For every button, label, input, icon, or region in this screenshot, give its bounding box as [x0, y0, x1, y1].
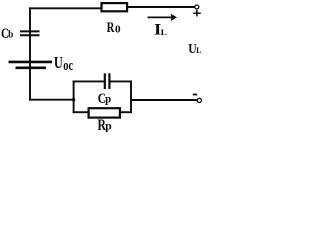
- svg-text:R: R: [107, 20, 115, 36]
- svg-text:U: U: [54, 53, 63, 72]
- svg-text:oc: oc: [63, 58, 73, 74]
- svg-text:p: p: [105, 92, 111, 106]
- svg-text:L: L: [196, 46, 202, 55]
- svg-text:p: p: [105, 120, 112, 132]
- svg-text:0: 0: [115, 24, 121, 35]
- svg-text:L: L: [161, 28, 167, 37]
- svg-text:b: b: [8, 30, 14, 41]
